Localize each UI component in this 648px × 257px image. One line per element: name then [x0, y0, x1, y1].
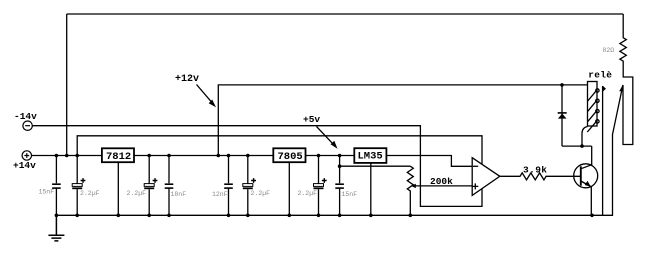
svg-text:200k: 200k	[430, 176, 453, 187]
svg-text:15nF: 15nF	[342, 191, 358, 198]
svg-text:relè: relè	[588, 70, 612, 81]
svg-text:+14v: +14v	[13, 160, 36, 171]
svg-text:+12v: +12v	[175, 74, 199, 85]
svg-text:15nF: 15nF	[39, 189, 55, 196]
svg-text:3.9k: 3.9k	[523, 165, 547, 176]
svg-text:7805: 7805	[278, 151, 303, 163]
svg-text:7812: 7812	[106, 151, 131, 163]
svg-text:-14v: -14v	[14, 111, 37, 122]
svg-text:+5v: +5v	[303, 114, 320, 125]
svg-text:2.2µF: 2.2µF	[80, 190, 100, 197]
svg-text:2.2µF: 2.2µF	[127, 190, 147, 197]
svg-text:82Ω: 82Ω	[603, 47, 615, 54]
svg-text:2.2µF: 2.2µF	[251, 190, 271, 197]
svg-text:2.2µF: 2.2µF	[298, 190, 318, 197]
svg-text:12nF: 12nF	[212, 191, 228, 198]
svg-text:LM35: LM35	[358, 151, 383, 163]
svg-text:18nF: 18nF	[171, 191, 187, 198]
